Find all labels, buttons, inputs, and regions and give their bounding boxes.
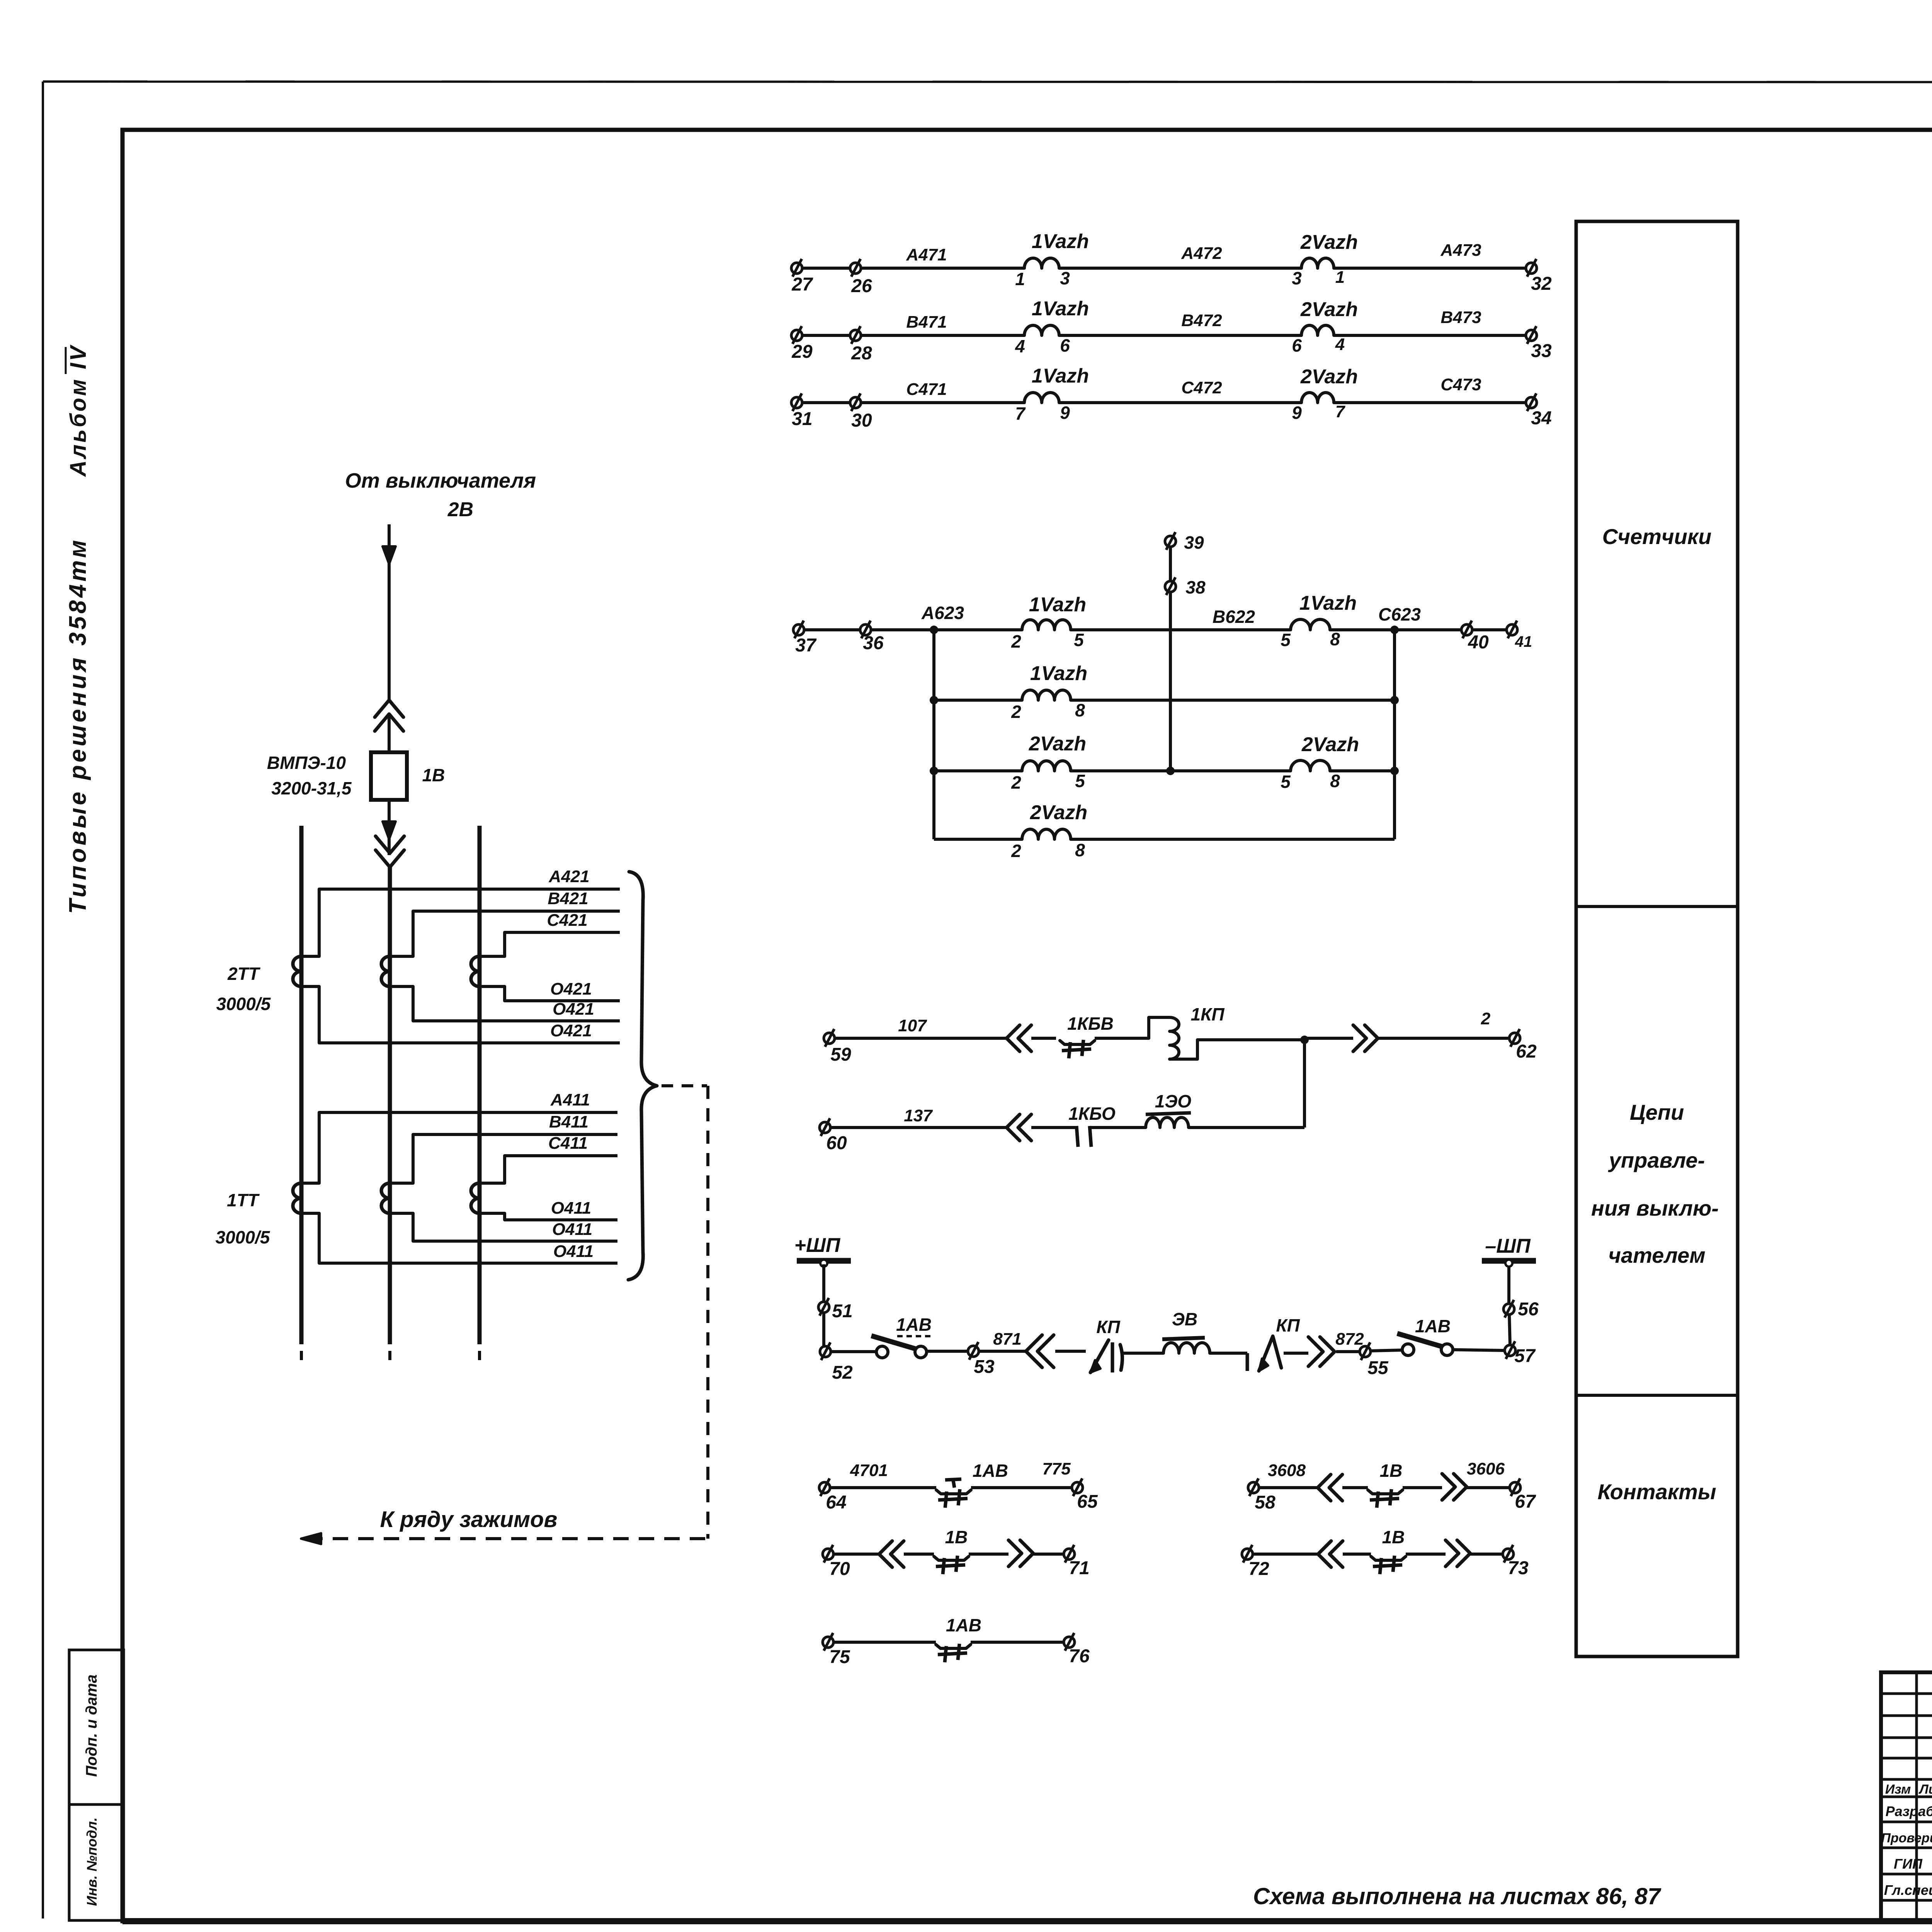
svg-text:О421: О421 <box>550 1021 592 1040</box>
svg-text:А623: А623 <box>921 603 964 623</box>
terminal 59 <box>824 1033 835 1044</box>
terminal 70 <box>823 1549 833 1560</box>
wire С471 row <box>797 401 1024 404</box>
bus phase B <box>388 867 392 1344</box>
svg-text:2В: 2В <box>447 498 473 521</box>
brace to terminal row <box>628 872 657 1280</box>
meter winding 2Vazh pins 6-4 <box>1301 325 1334 335</box>
wire А473 <box>1334 267 1531 270</box>
svg-text:59: 59 <box>830 1044 851 1065</box>
terminal 38 <box>1165 581 1176 592</box>
svg-text:2Vazh: 2Vazh <box>1030 801 1087 824</box>
svg-text:–ШП: –ШП <box>1485 1235 1531 1257</box>
svg-text:107: 107 <box>898 1016 927 1035</box>
svg-text:1ЭО: 1ЭО <box>1155 1091 1192 1111</box>
svg-text:60: 60 <box>826 1133 847 1153</box>
svg-text:Типовые решения 3584тм: Типовые решения 3584тм <box>65 537 91 914</box>
svg-text:8: 8 <box>1075 840 1085 860</box>
svg-text:3200-31,5: 3200-31,5 <box>271 778 352 798</box>
svg-text:2Vazh: 2Vazh <box>1300 366 1358 388</box>
svg-text:Альбом IV: Альбом IV <box>66 344 91 478</box>
chevrons 872 <box>1284 1352 1308 1355</box>
relay coil 1КП <box>1149 1017 1170 1038</box>
terminal 39 <box>1165 536 1176 547</box>
svg-text:Счетчики: Счетчики <box>1602 524 1712 549</box>
chevrons right of 1В <box>969 1553 1009 1556</box>
feeder below breaker <box>388 800 391 855</box>
svg-text:3: 3 <box>1292 268 1302 288</box>
svg-text:2: 2 <box>1011 702 1021 722</box>
sheet outer border <box>43 82 1932 82</box>
branch 2Vazh 2-5 / 5-8 <box>930 767 938 775</box>
left margin stamp boxes <box>69 1650 124 1804</box>
CT 1ТТ 3000/5 phase A <box>293 1183 301 1213</box>
wire to coil 1ЭО <box>1090 1126 1146 1129</box>
svg-text:6: 6 <box>1292 335 1302 355</box>
svg-text:С473: С473 <box>1440 375 1481 394</box>
column divider 2 <box>1576 1394 1738 1397</box>
terminal 41 <box>1507 624 1517 635</box>
svg-text:39: 39 <box>1184 532 1204 553</box>
wire 137 <box>830 1126 1007 1129</box>
svg-text:72: 72 <box>1248 1559 1269 1579</box>
svg-text:1АВ: 1АВ <box>946 1615 981 1635</box>
svg-text:1КП: 1КП <box>1191 1004 1225 1024</box>
svg-text:6: 6 <box>1060 335 1070 355</box>
svg-text:Изм: Изм <box>1885 1782 1911 1797</box>
svg-text:2Vazh: 2Vazh <box>1300 231 1358 253</box>
svg-text:1: 1 <box>1335 268 1345 287</box>
wire 872 to 55 <box>1336 1350 1360 1353</box>
svg-text:1Vazh: 1Vazh <box>1032 230 1089 253</box>
svg-text:33: 33 <box>1531 341 1552 361</box>
svg-text:2: 2 <box>1011 841 1021 861</box>
svg-text:62: 62 <box>1516 1041 1537 1062</box>
svg-text:Гл.спец.: Гл.спец. <box>1884 1882 1932 1898</box>
svg-text:4: 4 <box>1015 336 1025 356</box>
svg-text:57: 57 <box>1514 1346 1536 1366</box>
left branch bus <box>932 630 935 839</box>
terminal 33 <box>1526 330 1537 341</box>
wire 51-52 <box>822 1313 825 1346</box>
terminal 31 <box>791 397 802 408</box>
svg-text:1КБВ: 1КБВ <box>1067 1014 1114 1034</box>
plug chevrons out <box>1353 1025 1366 1051</box>
svg-text:4: 4 <box>1335 335 1345 354</box>
wire to КП <box>1055 1350 1086 1353</box>
svg-text:1АВ: 1АВ <box>1415 1316 1451 1336</box>
svg-text:1Vazh: 1Vazh <box>1032 298 1089 320</box>
svg-text:5: 5 <box>1075 771 1085 791</box>
svg-text:1Vazh: 1Vazh <box>1299 592 1357 614</box>
svg-text:С623: С623 <box>1378 604 1421 624</box>
svg-text:51: 51 <box>832 1301 852 1321</box>
svg-text:8: 8 <box>1075 700 1085 720</box>
svg-text:О421: О421 <box>550 980 592 998</box>
meter winding 2Vazh pins 3-1 <box>1301 258 1334 268</box>
svg-text:5: 5 <box>1281 772 1291 792</box>
svg-text:3000/5: 3000/5 <box>216 994 271 1014</box>
node С623 <box>1390 626 1399 634</box>
wire О421 b <box>413 1019 620 1022</box>
svg-text:А472: А472 <box>1181 244 1222 263</box>
bus phase A <box>299 826 304 1344</box>
svg-text:2ТТ: 2ТТ <box>227 964 261 984</box>
bus phase C <box>478 826 482 1344</box>
wire В473 <box>1334 334 1531 337</box>
svg-text:2: 2 <box>1481 1009 1491 1028</box>
wire down to 51 <box>822 1264 825 1302</box>
svg-text:А421: А421 <box>548 867 589 886</box>
svg-text:2Vazh: 2Vazh <box>1301 733 1359 756</box>
wire to 1КБО <box>1031 1126 1077 1129</box>
meter winding 1Vazh pins 4-6 <box>1024 325 1059 335</box>
svg-text:41: 41 <box>1515 633 1532 650</box>
svg-text:ния выклю-: ния выклю- <box>1591 1196 1719 1220</box>
svg-text:3608: 3608 <box>1268 1461 1306 1480</box>
svg-text:1КБО: 1КБО <box>1068 1104 1116 1124</box>
wire В472 <box>1059 334 1301 337</box>
wire А421 <box>319 888 620 891</box>
svg-text:26: 26 <box>851 276 872 296</box>
wire С473 <box>1334 401 1531 404</box>
wire О421 a <box>319 1041 620 1044</box>
svg-text:ВМПЭ-10: ВМПЭ-10 <box>267 753 346 773</box>
svg-text:56: 56 <box>1518 1299 1539 1320</box>
svg-text:67: 67 <box>1515 1492 1536 1512</box>
svg-text:В471: В471 <box>906 313 947 332</box>
terminal 56 <box>1503 1304 1514 1315</box>
svg-text:А471: А471 <box>906 245 947 264</box>
svg-text:8: 8 <box>1330 629 1340 649</box>
center vertical to 2Vazh row <box>1169 630 1172 771</box>
wire 38 to row <box>1169 547 1172 581</box>
wire to switch right <box>1371 1350 1402 1351</box>
breaker 1В box ВМПЭ-10 3200-31,5 <box>371 752 407 800</box>
wire to 1КБВ <box>1031 1037 1056 1040</box>
svg-text:1В: 1В <box>1382 1527 1405 1547</box>
svg-text:7: 7 <box>1015 403 1026 423</box>
terminal 32 <box>1526 263 1537 274</box>
CT 1ТТ phase C <box>471 1183 480 1213</box>
svg-text:О411: О411 <box>552 1220 592 1239</box>
wire to 57 <box>1453 1350 1505 1350</box>
svg-text:53: 53 <box>974 1357 995 1377</box>
svg-text:А411: А411 <box>550 1090 590 1109</box>
terminal 73 <box>1503 1549 1514 1560</box>
wire to switch <box>831 1350 876 1353</box>
svg-text:32: 32 <box>1531 274 1552 294</box>
terminal 62 <box>1509 1033 1520 1044</box>
wire 107 <box>835 1037 1007 1040</box>
svg-text:27: 27 <box>791 274 813 295</box>
svg-text:3000/5: 3000/5 <box>216 1227 270 1247</box>
svg-text:70: 70 <box>829 1559 850 1579</box>
CT 2ТТ phase C <box>471 956 480 986</box>
svg-text:ЭВ: ЭВ <box>1172 1309 1197 1329</box>
terminal 36 <box>860 624 871 635</box>
wire ЭВ to КП <box>1210 1352 1247 1355</box>
svg-text:7: 7 <box>1335 402 1346 421</box>
svg-text:О421: О421 <box>553 1000 594 1019</box>
svg-text:1АВ: 1АВ <box>896 1315 932 1335</box>
node to coil 1ЭО branch <box>1300 1036 1309 1044</box>
svg-text:Схема выполнена на листах 8: Схема выполнена на листах 86, 87 <box>1253 1883 1662 1909</box>
svg-text:64: 64 <box>826 1492 846 1513</box>
terminal 30 <box>850 397 861 408</box>
svg-text:8: 8 <box>1330 771 1340 791</box>
svg-text:2Vazh: 2Vazh <box>1300 298 1358 321</box>
svg-text:В472: В472 <box>1181 311 1222 330</box>
svg-text:В622: В622 <box>1213 607 1255 627</box>
svg-text:1В: 1В <box>422 765 445 785</box>
chevrons right of 1В <box>1406 1553 1446 1556</box>
svg-text:2: 2 <box>1011 772 1021 793</box>
right branch bus <box>1393 630 1396 839</box>
svg-text:58: 58 <box>1255 1492 1276 1513</box>
svg-text:В421: В421 <box>548 889 588 908</box>
svg-text:Инв. №подл.: Инв. №подл. <box>84 1817 100 1906</box>
svg-text:73: 73 <box>1508 1558 1529 1578</box>
wire О411 c <box>505 1218 617 1221</box>
meter winding 1Vazh pins 7-9 <box>1024 393 1059 403</box>
svg-text:Проверил: Проверил <box>1881 1831 1932 1845</box>
svg-text:С471: С471 <box>906 380 947 399</box>
wire to coil <box>1095 1037 1149 1040</box>
svg-text:+ШП: +ШП <box>794 1234 841 1257</box>
terminal 26 <box>850 263 861 274</box>
wire В471 row <box>797 334 1024 337</box>
terminal 51 <box>818 1302 829 1313</box>
svg-text:30: 30 <box>851 410 872 431</box>
column divider 1 <box>1576 905 1738 908</box>
svg-text:34: 34 <box>1531 408 1551 429</box>
CT 2ТТ phase B <box>381 956 390 986</box>
meter winding 1Vazh pins 1-3 <box>1024 258 1059 268</box>
svg-text:1В: 1В <box>945 1527 968 1547</box>
wire А471 row <box>797 267 1024 270</box>
wire row 37-41 <box>799 628 1022 631</box>
wire С421 <box>505 931 620 934</box>
svg-text:Цепи: Цепи <box>1630 1100 1684 1124</box>
wire to ЭВ <box>1121 1352 1163 1355</box>
svg-text:31: 31 <box>792 409 812 429</box>
terminal 27 <box>791 263 802 274</box>
svg-text:От выключателя: От выключателя <box>345 469 536 492</box>
wire О411 a <box>319 1262 617 1265</box>
svg-text:1: 1 <box>1015 269 1025 289</box>
svg-text:К ряду зажимов: К ряду зажимов <box>380 1507 558 1532</box>
wire А472 <box>1059 267 1301 270</box>
svg-text:65: 65 <box>1077 1492 1098 1512</box>
svg-text:5: 5 <box>1281 630 1291 650</box>
switch 1АВ left <box>871 1336 918 1350</box>
wire С472 <box>1059 401 1301 404</box>
svg-text:Разраб.: Разраб. <box>1886 1803 1932 1819</box>
wire up to node <box>1189 1126 1304 1129</box>
CT 1ТТ phase B <box>381 1183 390 1213</box>
terminal 58 <box>1248 1482 1259 1493</box>
svg-text:В411: В411 <box>549 1112 588 1131</box>
svg-text:ГИП: ГИП <box>1894 1856 1923 1872</box>
feeder from breaker 2В <box>388 524 391 699</box>
svg-text:1АВ: 1АВ <box>973 1461 1008 1481</box>
winding 1Vazh 5-8 <box>1291 619 1330 630</box>
terminal 55 <box>1360 1346 1371 1357</box>
svg-text:С421: С421 <box>547 911 587 930</box>
terminal 37 <box>793 624 804 635</box>
chevrons left of 1В <box>833 1553 879 1556</box>
svg-text:37: 37 <box>795 635 817 656</box>
wire С411 <box>505 1154 617 1157</box>
terminal 57 <box>1505 1345 1515 1356</box>
branch 1Vazh 2-8 <box>930 696 938 704</box>
svg-text:36: 36 <box>863 633 884 653</box>
svg-text:2Vazh: 2Vazh <box>1029 733 1086 755</box>
svg-text:1ТТ: 1ТТ <box>227 1190 260 1210</box>
chevrons left of 1В <box>1259 1486 1318 1489</box>
wire 871 <box>979 1350 1026 1353</box>
svg-text:775: 775 <box>1042 1459 1071 1478</box>
svg-text:28: 28 <box>851 343 872 364</box>
wire В411 <box>413 1133 617 1136</box>
function column box <box>1576 221 1738 1656</box>
terminal 29 <box>791 330 802 341</box>
chevrons left of 1В <box>1253 1553 1318 1556</box>
wire 2 to terminal 62 <box>1304 1037 1353 1040</box>
svg-text:871: 871 <box>993 1330 1021 1349</box>
terminal 72 <box>1242 1549 1253 1560</box>
terminal 64 <box>819 1482 830 1493</box>
svg-text:Контакты: Контакты <box>1597 1480 1716 1504</box>
terminal 65 <box>1072 1482 1083 1493</box>
svg-text:71: 71 <box>1069 1558 1089 1578</box>
svg-text:управле-: управле- <box>1608 1148 1705 1172</box>
wire 56 to -ШП <box>1507 1264 1510 1304</box>
title block grid <box>1881 1672 1932 1921</box>
chevrons right of 1В <box>1403 1486 1442 1489</box>
terminal 71 <box>1064 1549 1075 1560</box>
wire up 57-56 <box>1509 1315 1510 1345</box>
svg-text:4701: 4701 <box>850 1461 888 1480</box>
svg-text:3606: 3606 <box>1467 1459 1505 1478</box>
svg-text:С411: С411 <box>548 1134 588 1153</box>
terminal 52 <box>820 1346 831 1357</box>
wire О421 c <box>505 999 620 1002</box>
svg-text:137: 137 <box>904 1106 933 1125</box>
dashed link to terminal row <box>662 1084 707 1087</box>
terminal 34 <box>1526 397 1537 408</box>
switch 1АВ right <box>1397 1333 1445 1347</box>
svg-text:КП: КП <box>1276 1315 1300 1335</box>
svg-text:А473: А473 <box>1440 241 1481 260</box>
svg-text:чателем: чателем <box>1608 1243 1705 1267</box>
svg-text:2: 2 <box>1011 631 1021 651</box>
svg-text:75: 75 <box>829 1647 850 1667</box>
terminal 28 <box>850 330 861 341</box>
connector chevrons row2 <box>1007 1114 1020 1141</box>
wire to 53 <box>927 1350 968 1353</box>
svg-text:О411: О411 <box>553 1242 594 1261</box>
wire О411 b <box>413 1240 617 1243</box>
terminal 40 <box>1461 624 1472 635</box>
svg-text:40: 40 <box>1468 632 1489 653</box>
svg-text:9: 9 <box>1060 403 1070 423</box>
relay coil 1ЭО <box>1146 1117 1189 1128</box>
svg-text:О411: О411 <box>551 1199 591 1218</box>
terminal 67 <box>1510 1482 1520 1493</box>
node А623 <box>930 626 938 634</box>
svg-text:76: 76 <box>1069 1646 1090 1667</box>
svg-text:С472: С472 <box>1181 378 1222 397</box>
svg-text:9: 9 <box>1292 403 1302 423</box>
terminal 75 <box>823 1637 833 1648</box>
branch 2Vazh 2-8 bottom <box>934 838 1022 841</box>
svg-text:52: 52 <box>832 1362 853 1383</box>
winding 1Vazh 2-5 <box>1022 620 1071 630</box>
wire В421 <box>413 910 620 913</box>
terminal 76 <box>1064 1637 1075 1648</box>
svg-text:3: 3 <box>1060 268 1070 288</box>
svg-text:Лист: Лист <box>1918 1782 1932 1797</box>
plug chevrons up <box>375 700 403 717</box>
svg-text:КП: КП <box>1096 1317 1120 1337</box>
svg-text:1Vazh: 1Vazh <box>1030 662 1087 685</box>
svg-text:1Vazh: 1Vazh <box>1029 594 1086 616</box>
terminal 60 <box>820 1122 830 1133</box>
svg-text:В473: В473 <box>1440 308 1481 327</box>
svg-text:Подп. и дата: Подп. и дата <box>83 1675 100 1777</box>
svg-text:55: 55 <box>1367 1358 1389 1378</box>
svg-text:1Vazh: 1Vazh <box>1032 365 1089 387</box>
terminal 53 <box>968 1346 979 1357</box>
CT 2ТТ 3000/5 phase A <box>293 956 301 986</box>
connector chevrons <box>1007 1025 1020 1051</box>
svg-text:38: 38 <box>1185 577 1206 597</box>
svg-text:872: 872 <box>1335 1330 1364 1349</box>
svg-text:29: 29 <box>791 342 813 362</box>
chevrons 871 <box>1026 1335 1042 1367</box>
wire А411 <box>319 1111 617 1114</box>
svg-text:5: 5 <box>1074 630 1084 650</box>
meter winding 2Vazh pins 9-7 <box>1301 393 1334 403</box>
svg-text:1В: 1В <box>1380 1461 1403 1481</box>
